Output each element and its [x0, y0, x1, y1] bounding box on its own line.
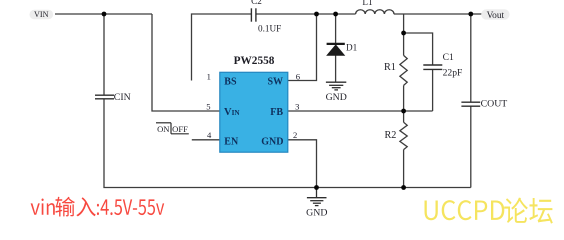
- junction node SW: [314, 12, 319, 17]
- wire CIN top lead: [103, 14, 105, 95]
- svg-text:ON: ON: [157, 124, 170, 134]
- svg-text:C1: C1: [443, 52, 454, 63]
- svg-text:0.1UF: 0.1UF: [258, 24, 281, 34]
- svg-text:GND: GND: [306, 207, 327, 218]
- capacitor CIN plates: [95, 94, 114, 96]
- watermark UCCPD forum (yellow): [425, 198, 553, 224]
- junction node GND rail: [314, 185, 319, 190]
- wire R2 bottom lead: [403, 150, 405, 188]
- svg-text:GND: GND: [261, 136, 283, 147]
- wire Vout stub: [471, 13, 482, 15]
- wire VIN-pin branch: [152, 14, 220, 111]
- svg-text:R1: R1: [384, 62, 396, 73]
- svg-text:VIN: VIN: [34, 10, 49, 19]
- junction node FB: [401, 109, 406, 114]
- ground symbol (bottom rail): [307, 188, 327, 206]
- svg-text:6: 6: [296, 72, 301, 82]
- wire EN pin 4: [192, 139, 220, 141]
- wire CIN bottom lead: [104, 99, 317, 188]
- junction node VIN/CIN: [102, 12, 107, 17]
- wire C2 to SW node: [256, 13, 317, 15]
- wire FB pin 3: [288, 110, 433, 112]
- inductor L1: [356, 10, 394, 14]
- svg-text:GND: GND: [326, 92, 347, 103]
- svg-text:PW2558: PW2558: [234, 55, 275, 67]
- junction node D1: [333, 12, 338, 17]
- capacitor COUT plates: [461, 101, 480, 103]
- svg-text:CIN: CIN: [114, 92, 131, 103]
- svg-text:2: 2: [293, 130, 297, 140]
- resistor R2: [400, 122, 407, 149]
- ground symbol (D1): [326, 82, 346, 90]
- capacitor C1 plates: [423, 64, 442, 66]
- svg-text:COUT: COUT: [481, 99, 508, 110]
- wire R1 bottom lead: [403, 85, 405, 111]
- wire SW node to L1: [317, 13, 356, 15]
- svg-text:1: 1: [207, 72, 211, 82]
- node VIN terminal: [30, 10, 54, 19]
- resistor R1: [400, 55, 407, 85]
- svg-text:L1: L1: [362, 0, 373, 7]
- wire COUT top lead: [470, 14, 472, 102]
- op-amp U1 PW2558 body: [220, 72, 288, 152]
- switch annotation ON/OFF: [156, 123, 189, 134]
- svg-text:4: 4: [207, 130, 212, 140]
- wire C1 branch: [404, 33, 433, 65]
- junction node R1/C1 top: [401, 31, 406, 36]
- svg-text:C2: C2: [251, 0, 262, 6]
- svg-text:R2: R2: [385, 130, 397, 141]
- svg-text:SW: SW: [267, 77, 283, 88]
- wire C1 bottom lead: [432, 70, 434, 111]
- junction node Vout: [468, 12, 473, 17]
- wire D1 top lead: [335, 14, 337, 43]
- capacitor C2 plates: [250, 8, 252, 21]
- note vin input range (red): [31, 197, 165, 217]
- wire BS branch vertical: [192, 14, 252, 81]
- svg-text:D1: D1: [346, 42, 358, 52]
- wire R2 top lead: [403, 111, 405, 122]
- svg-text:OFF: OFF: [172, 124, 188, 134]
- wire SW pin 6: [288, 14, 317, 81]
- svg-text:5: 5: [206, 101, 210, 111]
- svg-text:Vout: Vout: [487, 11, 505, 21]
- svg-text:3: 3: [295, 101, 299, 111]
- wire R1 top lead: [403, 14, 405, 55]
- svg-text:BS: BS: [224, 77, 237, 88]
- wire D1 bottom lead: [335, 55, 337, 82]
- wire L1 to Vout: [394, 13, 471, 15]
- wire COUT bottom lead: [470, 106, 472, 187]
- svg-text:EN: EN: [224, 136, 239, 147]
- wire VIN rail top-left: [55, 13, 152, 15]
- wire ground rail: [317, 187, 471, 189]
- wire GND pin 2: [288, 140, 317, 188]
- svg-text:VIN: VIN: [224, 107, 240, 118]
- junction node R2 bottom: [401, 185, 406, 190]
- node Vout terminal: [481, 9, 509, 21]
- svg-text:22pF: 22pF: [443, 67, 463, 78]
- svg-text:FB: FB: [270, 107, 283, 118]
- diode D1: [327, 44, 345, 55]
